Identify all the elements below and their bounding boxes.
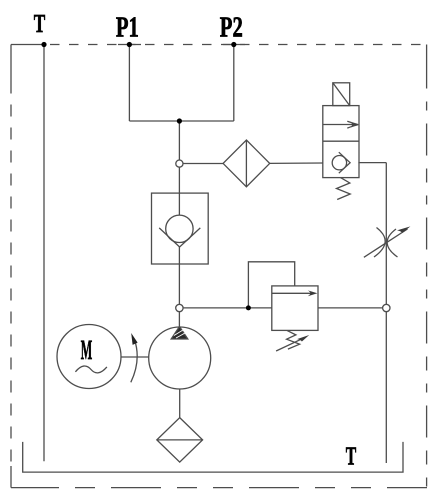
- enclosure dashed boundary left: [10, 45, 12, 488]
- wire P1-P2 manifold: [129, 120, 233, 122]
- adjustment arrow of RV1: [276, 335, 309, 351]
- enclosure dashed boundary bottom: [11, 487, 427, 489]
- svg-text:P1: P1: [116, 12, 139, 44]
- wire T return line: [43, 45, 45, 462]
- filter F1 (pressure line diamond): [223, 140, 270, 187]
- wire manifold to node A: [178, 121, 180, 160]
- pump outlet triangle (hatched): [171, 327, 188, 340]
- solenoid coil of S1: [333, 83, 350, 106]
- wire check valve to node B: [178, 247, 180, 304]
- wire node B to pump: [178, 312, 180, 327]
- wire right drop upper: [385, 163, 387, 305]
- junction dot T: [41, 42, 46, 47]
- node C (return port circle): [383, 304, 390, 311]
- motor M1 circle: [57, 325, 121, 389]
- wire valve S1 to right drop: [358, 162, 386, 164]
- wire P2 drop: [233, 45, 235, 122]
- junction dot P2: [231, 42, 236, 47]
- pilot line of RV1: [248, 262, 294, 308]
- relief valve RV1: [272, 286, 318, 331]
- enclosure dashed boundary right: [426, 45, 428, 488]
- svg-text:P2: P2: [220, 12, 243, 44]
- svg-text:M: M: [81, 335, 93, 366]
- wire P1 drop: [128, 45, 130, 122]
- wire filter F1 to valve S1: [270, 162, 323, 164]
- wire relief valve to node C: [318, 307, 383, 309]
- junction dot P1: [127, 42, 132, 47]
- junction dot manifold: [177, 118, 182, 123]
- throttle valve FC1: [364, 226, 411, 257]
- svg-text:T: T: [34, 9, 46, 38]
- enclosure dashed boundary top: [11, 44, 427, 46]
- wire right drop to tank: [385, 312, 387, 463]
- shaft motor to pump: [121, 356, 149, 358]
- pump P (circle): [149, 327, 211, 389]
- rotation arrow: [131, 333, 138, 382]
- junction dot pilot: [246, 305, 251, 310]
- node B (pump outlet port circle): [176, 304, 183, 311]
- check valve V1 (boxed): [152, 193, 209, 264]
- svg-text:T: T: [346, 442, 357, 471]
- wire pump outlet to relief valve RV1: [183, 307, 272, 309]
- wire node A to filter F1: [183, 163, 223, 165]
- spring of S1: [337, 178, 351, 200]
- tank boundary: [23, 442, 403, 472]
- spring of RV1: [287, 331, 300, 350]
- motor sine wave: [75, 366, 107, 373]
- node A (gauge port circle): [176, 160, 183, 167]
- solenoid valve S1 (2/2) body: [323, 106, 359, 178]
- wire pump suction: [179, 389, 181, 418]
- suction strainer F2 (diamond): [157, 418, 203, 463]
- wire node A to check valve: [178, 167, 180, 215]
